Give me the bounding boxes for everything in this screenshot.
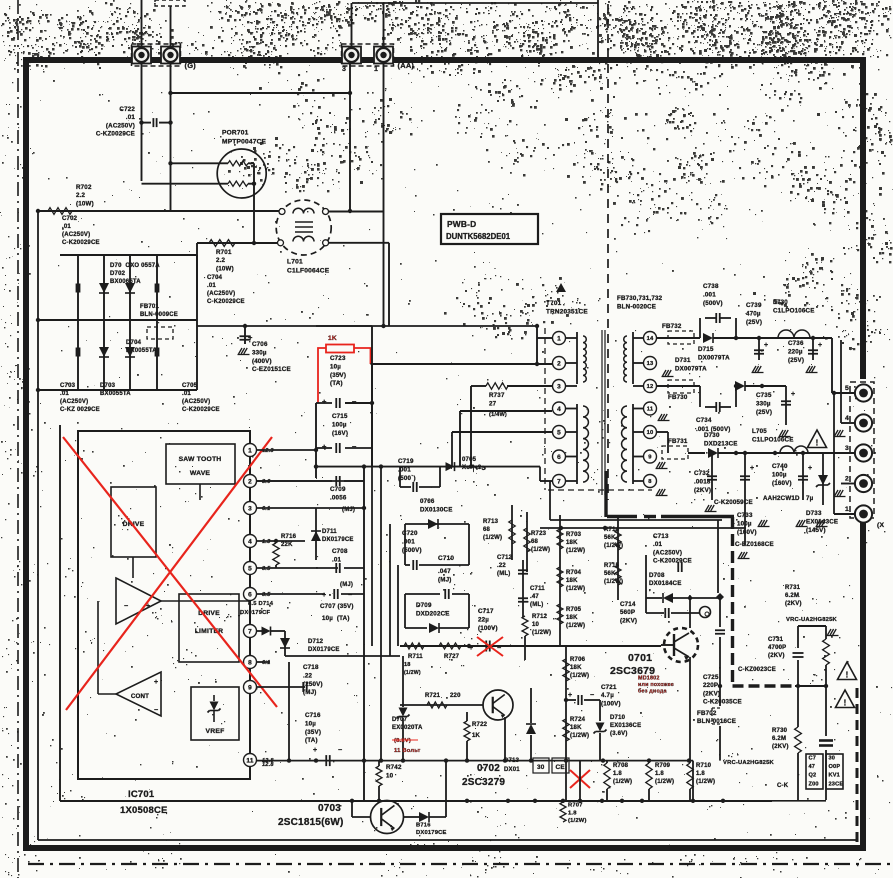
svg-text:4: 4	[845, 415, 849, 422]
svg-text:SAW TOOTH: SAW TOOTH	[179, 456, 222, 463]
svg-text:C731: C731	[768, 637, 784, 643]
svg-text:(1/2W): (1/2W)	[696, 779, 715, 785]
svg-text:8.5 D714: 8.5 D714	[248, 601, 274, 607]
svg-text:C-KZ0023CE: C-KZ0023CE	[738, 667, 776, 673]
svg-text:IC701: IC701	[128, 789, 155, 800]
svg-text:C722: C722	[119, 106, 135, 113]
svg-text:VRC-UA2HG825K: VRC-UA2HG825K	[786, 617, 838, 623]
svg-text:R701: R701	[216, 249, 232, 256]
svg-text:C-K20029CE: C-K20029CE	[653, 558, 692, 565]
svg-text:.0018: .0018	[694, 478, 711, 485]
svg-text:47: 47	[809, 764, 816, 770]
svg-text:100µ: 100µ	[772, 471, 787, 478]
svg-text:+: +	[791, 391, 795, 398]
svg-text:+: +	[808, 465, 812, 472]
svg-text:D710: D710	[610, 715, 626, 721]
svg-text:C705: C705	[182, 383, 198, 389]
svg-text:R702: R702	[76, 184, 92, 191]
svg-text:27: 27	[489, 400, 497, 407]
svg-text:1: 1	[845, 506, 849, 513]
svg-text:BLN-0016CE: BLN-0016CE	[697, 718, 736, 725]
svg-text:DX0079TA: DX0079TA	[675, 365, 707, 372]
svg-text:(AC250V): (AC250V)	[653, 549, 682, 556]
svg-text:.01: .01	[60, 391, 69, 397]
svg-text:−: −	[590, 692, 594, 699]
svg-text:R737: R737	[489, 392, 505, 399]
svg-text:1X0508CE: 1X0508CE	[120, 805, 168, 816]
svg-text:2SC1815(6W): 2SC1815(6W)	[278, 817, 344, 828]
svg-text:(2KV): (2KV)	[703, 690, 720, 697]
svg-text:(160V): (160V)	[772, 480, 792, 487]
svg-text:220: 220	[450, 693, 461, 699]
svg-text:56K: 56K	[604, 535, 616, 541]
svg-text:(MJ): (MJ)	[303, 689, 317, 696]
svg-text:(145V): (145V)	[806, 527, 826, 534]
svg-text:C732: C732	[694, 470, 710, 477]
svg-text:(1/2W): (1/2W)	[566, 623, 585, 629]
svg-text:DX0179CE: DX0179CE	[308, 647, 340, 653]
svg-text:8.6: 8.6	[262, 479, 271, 485]
svg-text:68: 68	[531, 539, 539, 545]
svg-text:10: 10	[532, 622, 540, 628]
svg-text:−: −	[352, 442, 357, 451]
svg-text:(100V): (100V)	[478, 625, 498, 632]
svg-text:.001: .001	[402, 538, 415, 545]
svg-text:D733: D733	[806, 510, 822, 517]
svg-text:10: 10	[386, 772, 394, 779]
svg-text:!: !	[816, 439, 819, 448]
svg-text:22K: 22K	[281, 542, 293, 548]
svg-text:1.8: 1.8	[696, 771, 705, 777]
svg-text:4: 4	[248, 538, 252, 545]
svg-text:3: 3	[248, 505, 252, 512]
svg-text:BLN-0020CE: BLN-0020CE	[617, 303, 656, 310]
svg-text:(1/2W): (1/2W)	[568, 818, 587, 824]
svg-text:DX0179CE: DX0179CE	[322, 537, 354, 543]
svg-text:C716: C716	[305, 712, 321, 719]
svg-text:R724: R724	[570, 717, 586, 723]
svg-text:R742: R742	[386, 764, 402, 771]
svg-text:0705: 0705	[462, 457, 477, 463]
svg-text:18K: 18K	[566, 540, 578, 546]
svg-text:6: 6	[248, 591, 252, 598]
svg-text:!: !	[844, 699, 847, 708]
svg-text:(3.6V): (3.6V)	[610, 731, 628, 737]
svg-text:2: 2	[557, 360, 561, 367]
svg-text:без диода: без диода	[638, 688, 667, 695]
svg-text:100µ: 100µ	[737, 520, 752, 527]
svg-text:8.5: 8.5	[262, 566, 271, 572]
svg-text:(2KV): (2KV)	[785, 601, 802, 607]
svg-text:C735: C735	[756, 392, 772, 399]
svg-text:6: 6	[557, 454, 561, 461]
svg-text:DXD213CE: DXD213CE	[704, 440, 738, 447]
svg-text:C702: C702	[62, 216, 78, 222]
svg-text:(TA): (TA)	[330, 380, 343, 387]
svg-text:−: −	[124, 603, 128, 610]
svg-text:C7: C7	[809, 755, 817, 761]
svg-text:(1/2W): (1/2W)	[604, 543, 623, 549]
svg-text:−: −	[348, 592, 352, 599]
svg-text:C708: C708	[332, 548, 348, 555]
svg-text:(2KV): (2KV)	[772, 744, 789, 750]
svg-text:C-K20035CE: C-K20035CE	[703, 699, 742, 706]
svg-text:1.8: 1.8	[613, 771, 622, 777]
svg-text:R715: R715	[604, 563, 620, 569]
svg-text:+: +	[568, 692, 572, 699]
svg-text:+: +	[154, 679, 158, 686]
svg-text:Q2: Q2	[809, 773, 817, 779]
svg-text:−: −	[154, 707, 158, 714]
svg-text:(160V): (160V)	[737, 529, 757, 536]
svg-text:R710: R710	[696, 763, 712, 769]
svg-text:FB731: FB731	[668, 438, 688, 445]
svg-text:(35V): (35V)	[330, 372, 346, 379]
svg-text:D731: D731	[675, 357, 691, 364]
svg-text:(1/2W): (1/2W)	[604, 579, 623, 585]
svg-text:(ML): (ML)	[530, 602, 543, 608]
svg-text:C-EZ0168CE: C-EZ0168CE	[735, 541, 774, 548]
svg-text:(1/2W): (1/2W)	[655, 779, 674, 785]
svg-text:D707: D707	[392, 717, 408, 723]
svg-text:0706: 0706	[420, 498, 435, 505]
svg-text:18K: 18K	[566, 578, 578, 584]
svg-text:(G): (G)	[185, 61, 197, 70]
svg-text:DX0130CE: DX0130CE	[420, 506, 453, 513]
svg-text:+: +	[313, 747, 317, 754]
svg-text:5: 5	[248, 565, 252, 572]
svg-text:1: 1	[248, 447, 252, 454]
svg-text:(MJ): (MJ)	[340, 582, 353, 588]
svg-text:6.2M: 6.2M	[785, 593, 799, 599]
svg-text:D70 OXO 0557A: D70 OXO 0557A	[110, 263, 160, 269]
svg-text:C720: C720	[402, 530, 418, 537]
svg-text:18K: 18K	[566, 615, 578, 621]
svg-text:18K: 18K	[570, 665, 582, 671]
svg-text:.047: .047	[438, 568, 451, 575]
svg-text:R731: R731	[785, 585, 801, 591]
svg-text:+: +	[322, 442, 327, 451]
svg-text:2.2: 2.2	[216, 257, 226, 264]
svg-text:0703: 0703	[318, 803, 341, 814]
svg-text:11 Вольт: 11 Вольт	[394, 748, 421, 754]
svg-text:FB730: FB730	[668, 394, 688, 401]
svg-text:D730: D730	[704, 432, 720, 439]
svg-text:(16V): (16V)	[332, 430, 348, 437]
svg-text:2: 2	[248, 478, 252, 485]
svg-text:C723: C723	[330, 355, 346, 362]
svg-text:3: 3	[557, 383, 561, 390]
svg-text:C715: C715	[332, 413, 348, 420]
svg-text:CE: CE	[556, 764, 566, 771]
svg-text:BX0055TA: BX0055TA	[100, 391, 131, 397]
svg-text:4.7µ: 4.7µ	[601, 692, 614, 699]
svg-text:C1LPO106CE: C1LPO106CE	[773, 307, 815, 314]
svg-text:.01: .01	[653, 541, 663, 548]
svg-text:100µ: 100µ	[332, 421, 347, 428]
svg-text:D712: D712	[308, 639, 324, 645]
svg-text:(25V): (25V)	[788, 357, 804, 364]
svg-text:(500V): (500V)	[402, 547, 422, 554]
svg-text:5: 5	[845, 385, 849, 392]
svg-text:EX0020TA: EX0020TA	[392, 725, 423, 731]
svg-text:1K: 1K	[328, 335, 337, 342]
svg-text:23CE: 23CE	[829, 781, 844, 787]
svg-text:C-K20059CE: C-K20059CE	[714, 499, 753, 506]
svg-text:PWB-D: PWB-D	[447, 219, 476, 229]
svg-text:(1/2W): (1/2W)	[531, 547, 550, 553]
svg-text:30: 30	[829, 755, 836, 761]
svg-text:FB701: FB701	[140, 304, 159, 310]
svg-text:R730: R730	[772, 728, 788, 734]
svg-text:7: 7	[248, 628, 252, 635]
svg-text:(1/2W): (1/2W)	[404, 670, 421, 676]
svg-text:C1LPO106CE: C1LPO106CE	[752, 436, 794, 443]
svg-text:!: !	[846, 671, 849, 680]
svg-text:L705: L705	[752, 428, 767, 435]
svg-text:220µ: 220µ	[788, 348, 803, 355]
svg-text:1.3: 1.3	[262, 539, 271, 545]
svg-text:(8.2V): (8.2V)	[394, 738, 411, 744]
svg-text:C711: C711	[530, 586, 545, 592]
svg-text:+: +	[764, 342, 768, 349]
svg-text:C725: C725	[703, 674, 719, 681]
svg-text:D708: D708	[649, 572, 665, 579]
svg-text:FB732: FB732	[662, 323, 682, 330]
svg-text:(1/4W): (1/4W)	[489, 412, 507, 418]
svg-text:или похожее: или похожее	[638, 682, 674, 688]
svg-text:−: −	[352, 397, 357, 406]
svg-text:330µ: 330µ	[252, 349, 267, 356]
svg-text:POR701: POR701	[222, 129, 249, 136]
svg-text:R713: R713	[483, 519, 499, 525]
svg-text:1.8: 1.8	[655, 771, 664, 777]
svg-text:12: 12	[647, 384, 654, 390]
svg-text:C719: C719	[398, 458, 414, 465]
svg-text:FB702: FB702	[697, 710, 717, 717]
svg-text:R709: R709	[655, 763, 671, 769]
svg-text:C739: C739	[746, 302, 762, 309]
svg-text:C-KZ 0029CE: C-KZ 0029CE	[60, 407, 100, 413]
svg-text:7: 7	[557, 478, 561, 485]
svg-text:+: +	[750, 465, 754, 472]
svg-text:TRN20351CE: TRN20351CE	[546, 309, 588, 316]
svg-text:8: 8	[248, 659, 252, 666]
svg-text:10µ (TA): 10µ (TA)	[322, 615, 350, 622]
svg-text:L701: L701	[287, 258, 303, 265]
svg-text:C704: C704	[207, 275, 223, 281]
svg-text:3: 3	[342, 66, 346, 73]
svg-text:8.5: 8.5	[262, 592, 271, 598]
svg-text:C-EZ0151CE: C-EZ0151CE	[252, 366, 291, 373]
svg-text:(2KV): (2KV)	[694, 487, 711, 494]
svg-text:12.8: 12.8	[262, 762, 274, 768]
svg-text:C-K: C-K	[777, 783, 789, 789]
svg-text:C-K20029CE: C-K20029CE	[182, 407, 220, 413]
svg-text:10µ: 10µ	[330, 363, 341, 370]
svg-text:22µ: 22µ	[478, 616, 489, 623]
svg-text:.22: .22	[497, 563, 506, 569]
svg-text:0702: 0702	[477, 763, 500, 774]
svg-text:(1/2W): (1/2W)	[570, 673, 589, 679]
svg-text:C738: C738	[703, 283, 719, 290]
svg-text:(25V): (25V)	[746, 319, 762, 326]
svg-text:(400V): (400V)	[252, 358, 272, 365]
svg-text:(2KV): (2KV)	[620, 617, 637, 624]
svg-text:(AC250V): (AC250V)	[106, 122, 135, 129]
svg-text:11: 11	[246, 757, 253, 764]
svg-text:560P: 560P	[620, 609, 635, 616]
svg-text:4700P: 4700P	[768, 645, 786, 651]
svg-text:VRC-UA2HG825K: VRC-UA2HG825K	[723, 760, 775, 766]
svg-text:220P: 220P	[703, 682, 718, 689]
svg-text:D709: D709	[416, 602, 432, 609]
svg-text:WAVE: WAVE	[190, 470, 211, 477]
svg-text:(AC250V): (AC250V)	[207, 291, 235, 297]
svg-text:DX01: DX01	[504, 767, 520, 773]
svg-text:(MJ): (MJ)	[438, 576, 452, 583]
svg-text:C734: C734	[696, 417, 712, 424]
svg-text:.01: .01	[126, 114, 136, 121]
svg-text:1K: 1K	[472, 733, 481, 739]
svg-text:5: 5	[557, 429, 561, 436]
svg-text:C707 (35V): C707 (35V)	[320, 603, 354, 610]
svg-text:D711: D711	[322, 529, 337, 535]
svg-text:C710: C710	[438, 555, 454, 562]
svg-text:C714: C714	[620, 601, 636, 608]
svg-text:FB730,731,732: FB730,731,732	[617, 295, 663, 302]
svg-text:C736: C736	[788, 340, 804, 347]
svg-text:AAH2CW1D: AAH2CW1D	[763, 495, 800, 502]
svg-text:(10W): (10W)	[76, 200, 94, 207]
svg-text:DX0179CE: DX0179CE	[416, 830, 447, 836]
svg-text:BX0065TA: BX0065TA	[110, 279, 141, 285]
svg-text:1: 1	[557, 335, 561, 342]
svg-text:(25V): (25V)	[756, 409, 772, 416]
svg-text:(250V): (250V)	[303, 681, 323, 688]
svg-text:30: 30	[537, 764, 545, 771]
svg-text:KV1: KV1	[829, 773, 840, 779]
svg-text:C709: C709	[330, 486, 346, 493]
svg-text:(35V): (35V)	[305, 729, 321, 736]
svg-text:(1/2W): (1/2W)	[566, 586, 585, 592]
svg-text:(100V): (100V)	[601, 700, 621, 707]
svg-text:(2KV): (2KV)	[768, 653, 785, 659]
svg-text:D703: D703	[100, 383, 116, 389]
svg-text:B716: B716	[416, 823, 431, 829]
svg-text:68: 68	[483, 527, 491, 533]
svg-text:4: 4	[557, 406, 561, 413]
svg-text:MD1802: MD1802	[638, 675, 660, 681]
svg-text:6.1: 6.1	[262, 506, 270, 512]
svg-text:(1/2W): (1/2W)	[566, 548, 585, 554]
svg-text:470µ: 470µ	[746, 310, 761, 317]
svg-text:C-K20029CE: C-K20029CE	[62, 240, 100, 246]
svg-text:C1LF0064CE: C1LF0064CE	[287, 267, 330, 274]
svg-text:R704: R704	[566, 570, 582, 576]
svg-text:DUNTK5682DE01: DUNTK5682DE01	[446, 232, 511, 241]
svg-text:R711: R711	[408, 654, 423, 660]
svg-text:O0P: O0P	[829, 764, 841, 770]
svg-text:MPTP0047CE: MPTP0047CE	[222, 138, 267, 145]
svg-text:13: 13	[647, 361, 654, 367]
svg-text:18: 18	[404, 662, 411, 668]
svg-text:R705: R705	[566, 607, 582, 613]
svg-text:+: +	[469, 645, 473, 652]
svg-text:+: +	[818, 342, 822, 349]
svg-text:(1/2W): (1/2W)	[483, 535, 502, 541]
svg-text:Z00: Z00	[809, 781, 819, 787]
svg-text:DX0055TA: DX0055TA	[126, 348, 157, 354]
svg-text:11: 11	[647, 407, 654, 413]
svg-text:(AA): (AA)	[398, 61, 415, 70]
svg-text:R706: R706	[570, 657, 586, 663]
svg-text:.01: .01	[62, 224, 71, 230]
svg-text:VREF: VREF	[206, 728, 225, 735]
svg-text:6.1: 6.1	[262, 660, 270, 666]
svg-text:.01: .01	[182, 391, 191, 397]
svg-text:56K: 56K	[604, 571, 616, 577]
svg-text:D713: D713	[504, 758, 520, 764]
svg-text:−: −	[338, 747, 342, 754]
svg-text:(AC250V): (AC250V)	[182, 399, 210, 405]
svg-text:2SC3279: 2SC3279	[462, 777, 505, 788]
svg-text:R716: R716	[281, 534, 297, 540]
svg-text:(1/2W): (1/2W)	[532, 630, 551, 636]
svg-text:C706: C706	[252, 341, 268, 348]
svg-text:C733: C733	[737, 512, 753, 519]
svg-text:7µ: 7µ	[806, 495, 814, 502]
svg-text:+: +	[322, 592, 326, 599]
svg-text:(AC250V): (AC250V)	[62, 232, 90, 238]
svg-text:R708: R708	[613, 763, 629, 769]
svg-text:.22: .22	[303, 672, 313, 679]
svg-text:D704: D704	[126, 340, 142, 346]
svg-text:1: 1	[374, 66, 378, 73]
svg-text:(1/2W): (1/2W)	[570, 733, 589, 739]
svg-text:T701: T701	[546, 300, 562, 307]
svg-text:.01: .01	[332, 556, 342, 563]
svg-text:3: 3	[845, 445, 849, 452]
svg-text:(500V): (500V)	[703, 300, 723, 307]
svg-text:Xєཀҹʡئ: Xєཀҹʡئ	[462, 464, 486, 473]
svg-text:1.8: 1.8	[568, 810, 577, 816]
svg-text:(TA): (TA)	[305, 737, 318, 744]
svg-text:.0056: .0056	[330, 494, 347, 501]
svg-text:C713: C713	[653, 533, 669, 540]
svg-text:C740: C740	[772, 463, 788, 470]
svg-text:BLN-0009CE: BLN-0009CE	[140, 312, 178, 318]
svg-text:9: 9	[648, 455, 652, 461]
svg-text:R727: R727	[444, 654, 460, 660]
svg-text:10µ: 10µ	[305, 720, 316, 727]
svg-text:2.2: 2.2	[76, 192, 86, 199]
svg-text:CONT: CONT	[131, 693, 149, 700]
svg-text:C-KZ0029CE: C-KZ0029CE	[96, 131, 135, 138]
svg-text:.47: .47	[530, 594, 539, 600]
svg-text:DX0079TA: DX0079TA	[698, 354, 730, 361]
svg-text:C721: C721	[601, 684, 617, 691]
svg-text:R722: R722	[472, 722, 488, 728]
svg-text:(AC250V): (AC250V)	[60, 399, 88, 405]
svg-text:2: 2	[845, 476, 849, 483]
svg-text:.001: .001	[703, 291, 716, 298]
svg-text:R712: R712	[532, 614, 548, 620]
svg-text:330µ: 330µ	[756, 400, 771, 407]
svg-text:.01: .01	[207, 283, 216, 289]
svg-text:R703: R703	[566, 532, 582, 538]
svg-text:DX0179CF: DX0179CF	[240, 610, 271, 616]
